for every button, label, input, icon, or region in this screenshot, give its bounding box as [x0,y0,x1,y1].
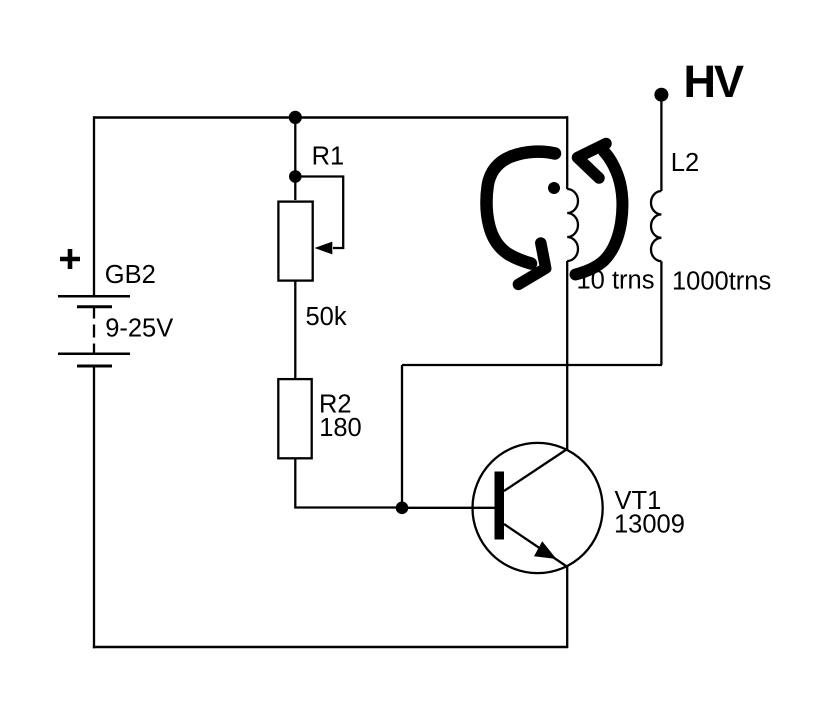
battery GB2 cell2 long plate [58,353,130,356]
node junction dot R1 top [289,170,302,183]
label 180 [319,414,362,442]
wire L2 lower lead [660,261,662,365]
wire feedback vertical [401,365,403,508]
wire L1 to collector [566,261,568,450]
wire L2 upper lead [660,95,662,191]
inductor L1 coil [567,189,578,261]
label HV [684,56,744,107]
transistor VT1 collector stroke [504,449,567,491]
label 50k [306,303,347,331]
wire left rail upper [93,116,95,296]
annotation left rotation arc [487,152,555,285]
transistor VT1 base bar [495,472,505,540]
label L2 [671,149,699,177]
wire base lead [402,507,496,509]
svg-text:1000trns: 1000trns [672,267,771,295]
label VT1 [615,487,662,515]
wire battery dashed link [93,307,95,354]
node HV terminal dot [654,88,668,102]
svg-text:50k: 50k [306,303,347,331]
node junction dot top [289,111,302,124]
transistor VT1 circle [472,443,602,573]
label GB2 [105,261,156,289]
label 10 trns [577,266,655,294]
svg-text:L2: L2 [671,149,699,177]
battery GB2 plus sign [60,249,80,269]
wire R2 bottom to base node [295,459,402,508]
node phase dot L1 [548,182,560,194]
battery GB2 cell1 short plate [77,305,112,308]
svg-text:9-25V: 9-25V [105,314,173,342]
resistor R2 body [278,379,311,458]
svg-text:GB2: GB2 [105,261,156,289]
wire top rail [94,116,568,119]
battery GB2 cell1 long plate [58,295,130,298]
svg-text:HV: HV [684,56,744,107]
node junction dot base [396,502,409,515]
svg-text:180: 180 [319,414,362,442]
annotation right rotation arc [576,144,623,275]
wire feedback horizontal [402,364,662,366]
label 1000trns [672,267,771,295]
label R1 [312,143,345,171]
transistor VT1 emitter stroke [504,524,567,567]
wire collector/L1 upper lead [566,116,568,189]
wire emitter to bottom rail [566,567,568,649]
label R2 [319,391,352,419]
svg-text:13009: 13009 [614,510,685,538]
wire R1 to R2 [294,282,296,379]
resistor R1 body [278,202,312,281]
wire R1 top lead [294,117,296,200]
label 13009 [614,510,685,538]
wiper arm R1 [295,177,343,255]
svg-text:R1: R1 [312,143,345,171]
wire bottom rail [93,646,568,649]
inductor L2 coil [651,191,661,261]
battery GB2 cell2 short plate [77,365,112,368]
wire left rail lower [93,366,95,648]
label 9-25V [105,314,173,342]
